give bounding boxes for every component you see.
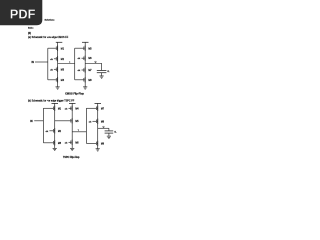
svg-text:M1: M1 bbox=[58, 108, 62, 110]
wire: node X bbox=[58, 62, 75, 64]
svg-text:clk: clk bbox=[50, 69, 54, 71]
wire: node Q (TSPC) bbox=[98, 127, 109, 129]
transistor M8 bbox=[75, 77, 93, 82]
svg-text:x: x bbox=[69, 62, 70, 64]
svg-text:M1: M1 bbox=[61, 48, 65, 50]
PDF badge bbox=[0, 0, 42, 25]
VDD rail A bbox=[56, 41, 63, 43]
svg-text:Solutions: Solutions bbox=[45, 18, 56, 21]
wire: node Y (stage2 out to stage3 bus) bbox=[72, 131, 86, 133]
VDD rail B bbox=[82, 41, 89, 43]
svg-text:M8: M8 bbox=[101, 121, 105, 123]
svg-text:M8: M8 bbox=[88, 80, 92, 82]
svg-text:M2: M2 bbox=[58, 131, 62, 133]
VDD rail stage 3 bbox=[95, 102, 102, 104]
VDD rail stage 2 bbox=[69, 102, 76, 104]
svg-text:(ii): (ii) bbox=[28, 32, 31, 35]
transistor M7 (TSPC) bbox=[86, 106, 104, 111]
svg-text:M6: M6 bbox=[88, 58, 92, 60]
transistor M1 bbox=[48, 46, 65, 51]
transistor M3 bbox=[50, 67, 65, 72]
svg-text:M7: M7 bbox=[88, 70, 92, 72]
svg-text:M3: M3 bbox=[58, 143, 62, 145]
svg-text:M6: M6 bbox=[75, 142, 79, 144]
svg-text:M3: M3 bbox=[61, 69, 65, 71]
transistor M3 (TSPC) bbox=[43, 140, 61, 145]
transistor M9 (TSPC) bbox=[86, 141, 104, 146]
wire: stack B spine bbox=[84, 42, 86, 86]
svg-text:clk: clk bbox=[46, 131, 50, 133]
VDD rail stage 1 bbox=[52, 102, 59, 104]
svg-text:M5: M5 bbox=[75, 121, 79, 123]
svg-text:TSPC Flip-Flop: TSPC Flip-Flop bbox=[63, 157, 80, 159]
ground under stack A bbox=[56, 87, 60, 89]
svg-text:IN: IN bbox=[30, 120, 33, 123]
transistor M8 (TSPC) bbox=[89, 119, 105, 124]
transistor M7 bbox=[78, 67, 93, 72]
transistor M5 bbox=[75, 46, 93, 51]
ground under stage 2 bbox=[70, 148, 74, 150]
svg-text:clk: clk bbox=[78, 58, 82, 60]
transistor M1 (TSPC) bbox=[43, 106, 61, 111]
svg-text:M4: M4 bbox=[75, 108, 79, 110]
svg-text:M7: M7 bbox=[101, 108, 105, 110]
svg-text:CL: CL bbox=[107, 71, 109, 73]
svg-text:M5: M5 bbox=[88, 48, 92, 50]
wire: input gate bus A bbox=[47, 48, 49, 80]
wire: node Q bbox=[85, 62, 101, 64]
ground under capacitor (schematic 1) bbox=[100, 76, 104, 78]
svg-text:Q: Q bbox=[103, 126, 105, 128]
transistor M2 bbox=[50, 56, 65, 61]
svg-text:clk: clk bbox=[65, 142, 69, 144]
ground under stage 3 bbox=[96, 149, 100, 151]
capacitor CL (TSPC) bbox=[105, 128, 114, 136]
ground under stack B bbox=[83, 87, 87, 89]
capacitor CL (schematic 1) bbox=[97, 63, 107, 75]
svg-text:CMOS Flip-Flop: CMOS Flip-Flop bbox=[65, 93, 84, 96]
svg-text:M9: M9 bbox=[101, 143, 105, 145]
svg-text:IN: IN bbox=[32, 61, 35, 64]
svg-text:M4: M4 bbox=[61, 80, 65, 82]
transistor M6 (TSPC) bbox=[65, 140, 80, 145]
svg-text:CL: CL bbox=[114, 132, 116, 134]
transistor M4 (TSPC) bbox=[65, 106, 80, 111]
transistor M6 bbox=[78, 56, 93, 61]
ground under capacitor (TSPC) bbox=[107, 136, 111, 138]
wire: node X (TSPC, stage1 out to M5 gate) bbox=[55, 120, 71, 122]
transistor M5 (TSPC) bbox=[71, 118, 79, 123]
transistor M4 bbox=[48, 77, 65, 82]
svg-text:(a) Schematic for +ve edge CMO: (a) Schematic for +ve edge CMOS FF bbox=[28, 36, 69, 39]
svg-text:Q: Q bbox=[95, 61, 97, 63]
svg-text:(b) Schematic for -ve edge tri: (b) Schematic for -ve edge trigger TSPC … bbox=[28, 99, 75, 102]
wire: stack A spine bbox=[57, 42, 59, 86]
transistor M2 (TSPC) bbox=[46, 128, 62, 133]
wire: stage 2 spine bbox=[71, 103, 73, 148]
svg-text:M2: M2 bbox=[61, 59, 65, 61]
wire: gate bus B bbox=[74, 48, 76, 80]
wire: IN lead bbox=[35, 61, 48, 63]
svg-text:PDF: PDF bbox=[10, 7, 36, 22]
svg-text:clk: clk bbox=[89, 121, 93, 123]
wire: stage 3 spine bbox=[97, 103, 99, 148]
wire: stage 1 spine bbox=[54, 103, 56, 148]
svg-text:clk: clk bbox=[65, 108, 69, 110]
svg-text:clk: clk bbox=[50, 59, 54, 61]
svg-text:clk: clk bbox=[78, 70, 82, 72]
wire: gate bus stage 3 bbox=[85, 108, 87, 143]
svg-text:Soln:: Soln: bbox=[28, 28, 34, 30]
ground under stage 1 bbox=[53, 148, 57, 150]
wire: IN lead (TSPC) bbox=[34, 120, 43, 122]
wire: gate bus stage 1 bbox=[42, 108, 44, 143]
